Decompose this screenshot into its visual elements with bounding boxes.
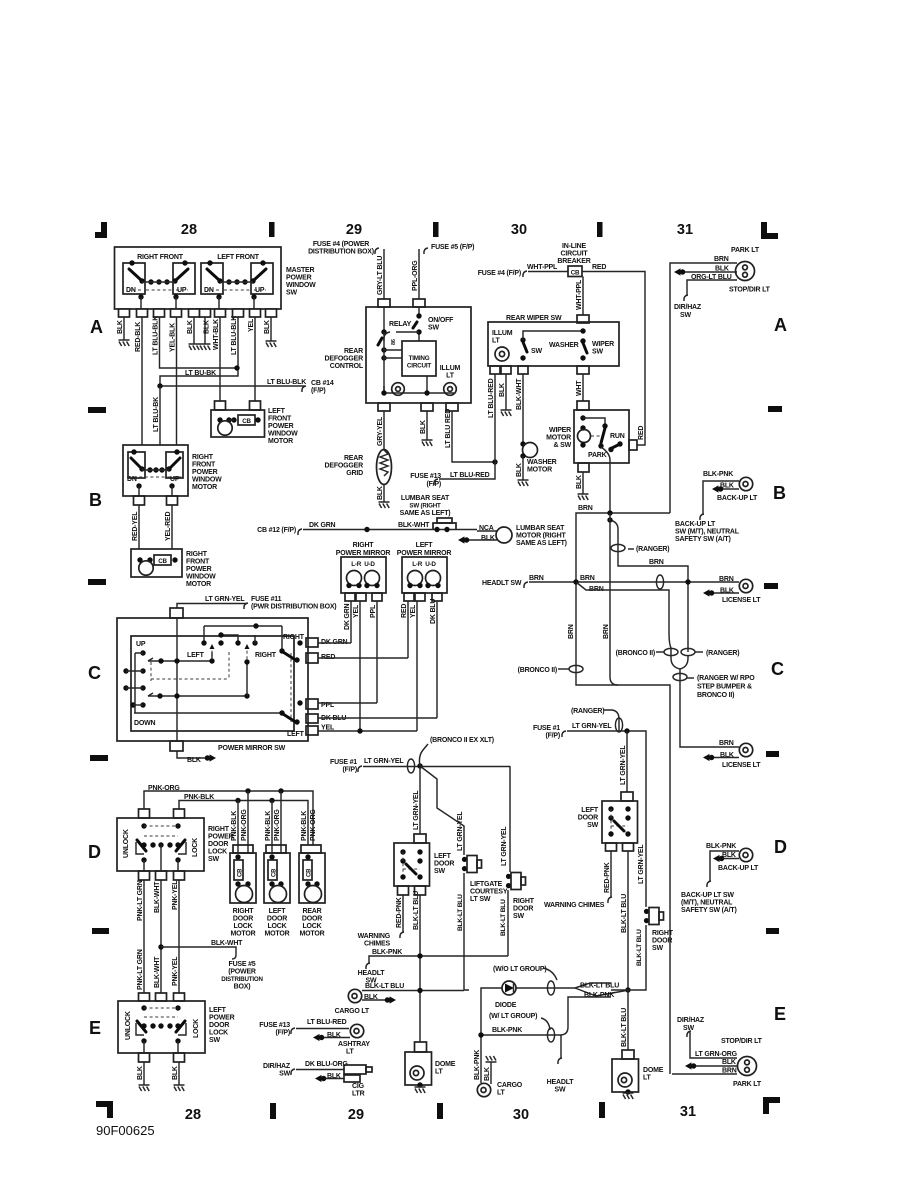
- svg-text:LT GRN-YEL: LT GRN-YEL: [572, 723, 612, 730]
- svg-text:BLK-LT BLU: BLK-LT BLU: [621, 894, 628, 933]
- svg-text:MOTOR: MOTOR: [268, 438, 293, 445]
- svg-text:RED-PNK: RED-PNK: [396, 897, 403, 928]
- svg-text:BRN: BRN: [719, 576, 734, 583]
- svg-text:LEFT FRONT: LEFT FRONT: [217, 254, 259, 261]
- bottom tick 3: [599, 1102, 605, 1118]
- svg-text:MOTOR: MOTOR: [265, 931, 290, 938]
- top-right park/stop lights: [670, 247, 771, 513]
- right door sw (mid): [506, 873, 526, 890]
- svg-text:RUN: RUN: [610, 433, 625, 440]
- svg-text:BRN: BRN: [568, 624, 575, 639]
- svg-text:GRY-YEL: GRY-YEL: [377, 416, 384, 446]
- svg-text:BLK-PNK: BLK-PNK: [703, 471, 733, 478]
- wiper box bottom tabs: [490, 366, 500, 374]
- svg-text:LICENSE LT: LICENSE LT: [722, 762, 761, 769]
- wire from fuse1 right: [567, 731, 646, 907]
- svg-text:SW: SW: [652, 945, 663, 952]
- wire ORG-LT BLU: [687, 280, 737, 295]
- BLK-PNK down to cargo lt 2: [480, 1035, 482, 1083]
- svg-text:PNK-LT GRN: PNK-LT GRN: [137, 949, 144, 990]
- corner bracket top-left: [95, 222, 107, 238]
- svg-text:PARK LT: PARK LT: [731, 247, 760, 254]
- svg-text:BACK-UP LT SW: BACK-UP LT SW: [681, 892, 734, 899]
- svg-text:BLK: BLK: [264, 320, 271, 334]
- svg-text:DOME: DOME: [435, 1061, 456, 1068]
- svg-text:(F/P): (F/P): [311, 388, 326, 395]
- svg-text:FUSE #11: FUSE #11: [251, 596, 282, 603]
- svg-text:LOCK: LOCK: [302, 923, 321, 930]
- left tick 2: [88, 579, 106, 585]
- left-front rocker group: [201, 260, 273, 309]
- defogger top tabs: [378, 299, 390, 307]
- svg-text:31: 31: [677, 222, 693, 238]
- svg-text:SW: SW: [592, 349, 603, 356]
- svg-text:DEFOGGER: DEFOGGER: [325, 463, 364, 470]
- svg-text:BLK-LT BLU: BLK-LT BLU: [413, 891, 420, 930]
- svg-text:LT: LT: [346, 1049, 355, 1056]
- license lamp 2: [739, 743, 752, 756]
- license lamp 1: [739, 579, 752, 592]
- svg-text:LT GRN-YEL: LT GRN-YEL: [638, 844, 645, 884]
- svg-text:CB: CB: [158, 558, 167, 565]
- svg-text:ILLUM: ILLUM: [492, 330, 513, 337]
- wiper bottom tab: [578, 463, 589, 472]
- svg-text:COURTESY: COURTESY: [470, 889, 508, 896]
- wire RED-BLK pin2: [141, 317, 143, 445]
- svg-text:PNK-BLK: PNK-BLK: [231, 811, 238, 841]
- svg-text:PPL: PPL: [370, 604, 377, 618]
- svg-text:RIGHT: RIGHT: [652, 930, 674, 937]
- svg-text:ILLUM: ILLUM: [440, 365, 461, 372]
- corner bracket top-right: [761, 222, 778, 239]
- svg-text:SW (M/T), NEUTRAL: SW (M/T), NEUTRAL: [675, 529, 740, 536]
- svg-text:YEL: YEL: [248, 318, 255, 332]
- defogger lamp: [392, 383, 405, 396]
- master power window sw box: [115, 247, 282, 309]
- svg-text:DOOR: DOOR: [578, 815, 598, 822]
- svg-text:DIODE: DIODE: [495, 1002, 517, 1009]
- svg-text:BRN: BRN: [580, 575, 595, 582]
- left tick 4: [92, 928, 109, 934]
- svg-text:LT GRN-YEL: LT GRN-YEL: [457, 811, 464, 851]
- svg-text:CHIMES: CHIMES: [364, 941, 391, 948]
- svg-text:BLK: BLK: [187, 320, 194, 334]
- svg-text:WARNING: WARNING: [358, 933, 391, 940]
- svg-text:LT: LT: [446, 373, 455, 380]
- wire to CB #14: [160, 385, 305, 387]
- svg-text:(F/P): (F/P): [545, 733, 560, 740]
- svg-text:(PWR DISTRIBUTION BOX): (PWR DISTRIBUTION BOX): [251, 604, 336, 611]
- svg-text:CARGO LT: CARGO LT: [335, 1008, 370, 1015]
- svg-text:BLK: BLK: [117, 320, 124, 334]
- svg-text:CIRCUIT: CIRCUIT: [561, 251, 589, 258]
- wire BLK to ground: [505, 374, 507, 410]
- LT GRN-YEL down to left door sw right col: [626, 731, 628, 792]
- fuse #5 branch: [158, 944, 163, 949]
- svg-text:BLK: BLK: [484, 1067, 491, 1081]
- svg-text:POWER MIRROR: POWER MIRROR: [397, 550, 452, 557]
- svg-text:REAR: REAR: [344, 348, 363, 355]
- svg-text:CARGO: CARGO: [497, 1082, 523, 1089]
- bottom tick 2: [437, 1103, 443, 1119]
- svg-text:FUSE #1: FUSE #1: [533, 725, 560, 732]
- ashtray lamp: [350, 1024, 363, 1037]
- svg-text:RED: RED: [638, 426, 645, 440]
- bottom bus in defogger box: [384, 376, 454, 393]
- svg-text:E: E: [774, 1004, 786, 1024]
- svg-text:UNLOCK: UNLOCK: [125, 1011, 132, 1040]
- wires to left lock sw: [143, 880, 145, 993]
- svg-text:RIGHT: RIGHT: [255, 652, 277, 659]
- svg-text:BRN: BRN: [649, 559, 664, 566]
- svg-text:BLK: BLK: [172, 1066, 179, 1080]
- svg-text:29: 29: [346, 222, 362, 238]
- svg-text:LICENSE LT: LICENSE LT: [722, 597, 761, 604]
- svg-text:31: 31: [680, 1104, 696, 1120]
- wire WHT: [582, 374, 584, 401]
- dome lt (right col): [622, 1050, 634, 1059]
- svg-text:LT BLU-RED: LT BLU-RED: [307, 1019, 347, 1026]
- cargo lt 2 ground wire: [490, 1062, 492, 1084]
- svg-text:FUSE #13: FUSE #13: [259, 1022, 290, 1029]
- svg-text:BLK-LT BLU: BLK-LT BLU: [636, 929, 643, 966]
- ground pin10: [266, 341, 277, 347]
- tab wires up to mirrors: [318, 642, 351, 644]
- svg-text:BACK-UP LT: BACK-UP LT: [718, 865, 759, 872]
- svg-text:RIGHT FRONT: RIGHT FRONT: [137, 254, 184, 261]
- svg-text:BLK-PNK: BLK-PNK: [474, 1050, 481, 1080]
- svg-text:BLK-WHT: BLK-WHT: [211, 940, 243, 947]
- svg-text:(BRONCO II): (BRONCO II): [616, 650, 655, 657]
- left door sw (mid) top tab: [414, 834, 426, 843]
- svg-text:BLK: BLK: [137, 1066, 144, 1080]
- wire RED from CB: [582, 272, 645, 446]
- svg-text:DOME: DOME: [643, 1067, 664, 1074]
- svg-text:WASHER: WASHER: [549, 342, 579, 349]
- svg-text:SW (RIGHT: SW (RIGHT: [409, 503, 441, 510]
- svg-text:POWER: POWER: [186, 566, 212, 573]
- svg-text:BRN: BRN: [719, 740, 734, 747]
- svg-text:HEADLT SW: HEADLT SW: [482, 580, 522, 587]
- left door lock motor: [271, 800, 273, 853]
- svg-text:L-R U-D: L-R U-D: [412, 561, 436, 568]
- svg-text:BRONCO II): BRONCO II): [697, 692, 734, 699]
- svg-text:BLK: BLK: [722, 1059, 736, 1066]
- right column D/E: [533, 708, 763, 1099]
- svg-text:RED-BLK: RED-BLK: [135, 322, 142, 352]
- cig lighter symbol: [344, 1065, 366, 1074]
- svg-text:DIR/HAZ: DIR/HAZ: [674, 304, 702, 311]
- connector tabs under master sw: [119, 309, 277, 317]
- defogger bottom tabs: [378, 403, 390, 411]
- wire RED-YEL: [138, 505, 140, 549]
- svg-text:(RANGER): (RANGER): [571, 708, 604, 715]
- svg-text:LT BLU-BLK: LT BLU-BLK: [231, 316, 238, 355]
- right-front rocker group: [123, 260, 195, 309]
- ground pin6: [200, 344, 211, 350]
- svg-text:RIGHT: RIGHT: [208, 826, 230, 833]
- svg-text:FRONT: FRONT: [268, 416, 292, 423]
- motor circle: [218, 421, 232, 435]
- svg-text:CB: CB: [272, 868, 278, 877]
- svg-text:FRONT: FRONT: [186, 559, 210, 566]
- right tick 2: [764, 583, 778, 589]
- right tick 4: [766, 928, 779, 934]
- right mid BRN network: [482, 471, 761, 1074]
- svg-text:RIGHT: RIGHT: [353, 542, 375, 549]
- svg-text:CB #14: CB #14: [311, 380, 334, 387]
- svg-text:RIGHT: RIGHT: [283, 634, 305, 641]
- svg-text:LOCK: LOCK: [208, 849, 227, 856]
- svg-text:RED-PNK: RED-PNK: [604, 862, 611, 893]
- svg-text:DOOR: DOOR: [233, 916, 253, 923]
- corner bracket bottom-right: [763, 1097, 780, 1114]
- svg-text:90F00625: 90F00625: [96, 1123, 155, 1138]
- svg-text:CIG: CIG: [352, 1083, 365, 1090]
- svg-text:A: A: [90, 317, 103, 337]
- wiper contact rail 2: [148, 693, 247, 696]
- svg-text:RIGHT: RIGHT: [233, 908, 255, 915]
- window motors left column: [123, 401, 298, 588]
- wiper section: [439, 243, 645, 513]
- headlt sw (bottom): [560, 1035, 562, 1058]
- svg-text:YEL: YEL: [410, 604, 417, 618]
- wiper contact rail 1: [148, 652, 212, 661]
- svg-text:FRONT: FRONT: [192, 462, 216, 469]
- BLK-LT BLU down from right door sw: [507, 890, 509, 956]
- svg-text:(RANGER W/ RPO: (RANGER W/ RPO: [697, 675, 755, 682]
- wire BLK pin1: [123, 317, 125, 340]
- svg-text:YEL-RED: YEL-RED: [165, 512, 172, 541]
- svg-text:BRN: BRN: [603, 624, 610, 639]
- RED-PNK to warning chimes: [402, 895, 404, 932]
- svg-text:TIMING: TIMING: [409, 355, 430, 362]
- wire LT BLU-RED from illum: [439, 374, 495, 479]
- svg-text:DEFOGGER: DEFOGGER: [325, 356, 364, 363]
- svg-text:IN-LINE: IN-LINE: [562, 243, 586, 250]
- svg-text:YEL: YEL: [353, 604, 360, 618]
- wire YEL pin9: [254, 317, 256, 401]
- svg-text:BLK-PNK: BLK-PNK: [372, 949, 402, 956]
- wire GRY-YEL: [383, 411, 385, 450]
- svg-text:PARK LT: PARK LT: [733, 1081, 762, 1088]
- svg-text:RIGHT: RIGHT: [192, 454, 214, 461]
- svg-text:WARNING CHIMES: WARNING CHIMES: [544, 902, 605, 909]
- power mirror sw bottom tab: [170, 741, 183, 751]
- svg-text:D: D: [774, 837, 787, 857]
- back-up lamp B: [739, 477, 752, 490]
- rear defogger control: [308, 241, 498, 508]
- svg-text:FUSE #4 (POWER: FUSE #4 (POWER: [313, 241, 369, 248]
- svg-text:POWER: POWER: [209, 1015, 235, 1022]
- svg-text:LTR: LTR: [352, 1091, 365, 1098]
- lumbar + mirrors: [257, 495, 567, 731]
- svg-text:E: E: [89, 1018, 101, 1038]
- svg-text:DISTRIBUTION: DISTRIBUTION: [221, 976, 263, 983]
- svg-text:LT: LT: [435, 1069, 444, 1076]
- svg-text:PNK-ORG: PNK-ORG: [274, 809, 281, 841]
- fork labels: [575, 983, 629, 996]
- svg-text:(F/P): (F/P): [275, 1030, 290, 1037]
- svg-text:LOCK: LOCK: [233, 923, 252, 930]
- svg-text:BLK: BLK: [481, 535, 495, 542]
- svg-text:DK BLU: DK BLU: [430, 599, 437, 624]
- bottom tabs: [398, 886, 409, 895]
- svg-text:PNK-ORG: PNK-ORG: [241, 809, 248, 841]
- svg-text:BLK: BLK: [516, 463, 523, 477]
- park wire down to BRN bus: [601, 447, 610, 513]
- svg-text:BLK-PNK: BLK-PNK: [706, 843, 736, 850]
- svg-text:BLK: BLK: [499, 383, 506, 397]
- svg-text:CB #12 (F/P): CB #12 (F/P): [257, 527, 296, 534]
- svg-text:DOWN: DOWN: [134, 720, 156, 727]
- svg-text:ASHTRAY: ASHTRAY: [338, 1041, 370, 1048]
- svg-text:LEFT: LEFT: [209, 1007, 227, 1014]
- output tabs right: [306, 638, 318, 647]
- svg-text:PPL-ORG: PPL-ORG: [412, 260, 419, 291]
- svg-text:L-R U-D: L-R U-D: [351, 561, 375, 568]
- right front motor CB box: [131, 549, 182, 577]
- svg-text:CB: CB: [571, 270, 580, 277]
- svg-text:SW: SW: [555, 1087, 566, 1094]
- top tick 3: [597, 222, 603, 237]
- bronco II ex xlt branch: [419, 744, 428, 766]
- svg-text:DISTRIBUTION BOX): DISTRIBUTION BOX): [308, 249, 374, 256]
- svg-text:PNK-BLK: PNK-BLK: [265, 811, 272, 841]
- wire GRY-LT BLU: [383, 249, 385, 299]
- on/off switch: [418, 307, 420, 316]
- svg-text:(F/P): (F/P): [342, 767, 357, 774]
- park/stop dual lamp: [736, 262, 755, 281]
- svg-text:DIR/HAZ: DIR/HAZ: [263, 1063, 291, 1070]
- bottom tick 1: [270, 1103, 276, 1119]
- svg-text:PNK-YEL: PNK-YEL: [172, 956, 179, 986]
- dashed rails: [129, 289, 266, 291]
- svg-text:UP: UP: [136, 641, 146, 648]
- corner bracket bottom-left: [96, 1101, 113, 1118]
- right upper switch arm: [281, 626, 283, 650]
- svg-text:PNK-YEL: PNK-YEL: [172, 880, 179, 910]
- curve of second BRN into bus: [610, 513, 618, 685]
- svg-text:BLK-PNK: BLK-PNK: [492, 1027, 522, 1034]
- bottom tabs: [139, 1053, 150, 1062]
- svg-text:DIR/HAZ: DIR/HAZ: [677, 1017, 705, 1024]
- svg-text:D: D: [88, 842, 101, 862]
- svg-text:BLK: BLK: [187, 757, 201, 764]
- svg-text:WHT: WHT: [576, 380, 583, 396]
- diode bus: [464, 988, 502, 1035]
- svg-text:BLK-LT BLU: BLK-LT BLU: [457, 894, 464, 931]
- left tick 3: [90, 755, 108, 761]
- svg-text:SAME AS LEFT): SAME AS LEFT): [516, 540, 567, 547]
- wire into CB: [528, 271, 568, 273]
- wire LT BLU-BLK pin8 joins pin3: [160, 317, 238, 386]
- svg-text:A: A: [774, 315, 787, 335]
- svg-text:DOOR: DOOR: [208, 841, 228, 848]
- svg-text:SW: SW: [680, 312, 691, 319]
- svg-text:LOCK: LOCK: [209, 1030, 228, 1037]
- svg-text:LT GRN-ORG: LT GRN-ORG: [695, 1051, 738, 1058]
- svg-text:SW: SW: [279, 1071, 290, 1078]
- wire WHT-BLK pin7: [219, 317, 221, 401]
- svg-text:RIGHT: RIGHT: [186, 551, 208, 558]
- left ladder contacts: [140, 650, 145, 655]
- svg-text:LT GRN-YEL: LT GRN-YEL: [364, 758, 404, 765]
- stem: [176, 618, 178, 741]
- timing circuit box: [402, 341, 436, 376]
- wire LT BLU-BK down to motor: [159, 386, 161, 445]
- svg-text:LEFT: LEFT: [268, 408, 286, 415]
- left door sw (mid col) box: [394, 843, 430, 886]
- wire LT BLU RED: [452, 411, 495, 462]
- svg-text:SAFETY SW (A/T): SAFETY SW (A/T): [675, 536, 731, 543]
- svg-text:YEL-BLK: YEL-BLK: [170, 323, 177, 352]
- svg-text:BACK-UP LT: BACK-UP LT: [717, 495, 758, 502]
- svg-text:LT BU-BK: LT BU-BK: [185, 370, 216, 377]
- svg-text:(BRONCO II): (BRONCO II): [518, 667, 557, 674]
- svg-text:28: 28: [185, 1107, 201, 1123]
- svg-text:WHT-PPL: WHT-PPL: [527, 264, 558, 271]
- A28: master power window switch: [115, 247, 334, 445]
- svg-text:LOCK: LOCK: [267, 923, 286, 930]
- svg-text:86: 86: [391, 339, 397, 345]
- run tab: [629, 440, 637, 450]
- ranger branch from park wire: [610, 520, 688, 652]
- svg-text:SW: SW: [531, 348, 542, 355]
- svg-text:CB: CB: [242, 418, 251, 425]
- diode: [502, 981, 516, 995]
- mid vertical: [246, 662, 248, 696]
- svg-text:REAR: REAR: [302, 908, 321, 915]
- left door sw (right col) top tab: [621, 792, 633, 801]
- svg-text:BRN: BRN: [578, 505, 593, 512]
- BLK-LT BLU down to bus: [627, 851, 629, 990]
- svg-text:GRY-LT BLU: GRY-LT BLU: [377, 256, 384, 295]
- branch down to right door sw (mid): [509, 766, 511, 872]
- svg-text:WIPER: WIPER: [592, 341, 614, 348]
- svg-text:WINDOW: WINDOW: [192, 477, 222, 484]
- rear defogger control box: [366, 307, 471, 403]
- svg-text:DOOR: DOOR: [513, 906, 533, 913]
- svg-text:BLK: BLK: [576, 475, 583, 489]
- right front power window motor box: [123, 445, 188, 496]
- svg-text:LT BLU-BLK: LT BLU-BLK: [153, 316, 160, 355]
- svg-text:BLK-PNK: BLK-PNK: [584, 992, 614, 999]
- right power door lock sw top tabs: [139, 809, 150, 818]
- bottom lamps row: [259, 1019, 372, 1098]
- illum lamp: [495, 347, 509, 361]
- cargo lt 2: [477, 1083, 490, 1096]
- dashed linkage: [151, 645, 291, 722]
- svg-text:REAR WIPER SW: REAR WIPER SW: [506, 315, 562, 322]
- svg-text:DOOR: DOOR: [652, 938, 672, 945]
- upper contact row: [221, 635, 238, 643]
- svg-text:LT BLU-RED: LT BLU-RED: [488, 378, 495, 418]
- branch to liftgate courtesy: [420, 766, 464, 855]
- svg-text:LT SW: LT SW: [470, 896, 491, 903]
- svg-text:CB: CB: [238, 868, 244, 877]
- svg-text:WINDOW: WINDOW: [186, 574, 216, 581]
- svg-text:BLK-LT BLU: BLK-LT BLU: [365, 983, 404, 990]
- svg-text:BLK: BLK: [715, 266, 729, 273]
- svg-text:SW: SW: [208, 856, 219, 863]
- svg-text:DK BLU-ORG: DK BLU-ORG: [305, 1061, 348, 1068]
- svg-text:(RANGER): (RANGER): [636, 546, 669, 553]
- svg-text:BLK-WHT: BLK-WHT: [154, 881, 161, 913]
- top tick 1: [269, 222, 275, 237]
- svg-text:REAR: REAR: [344, 455, 363, 462]
- washer sw contacts: [520, 337, 525, 342]
